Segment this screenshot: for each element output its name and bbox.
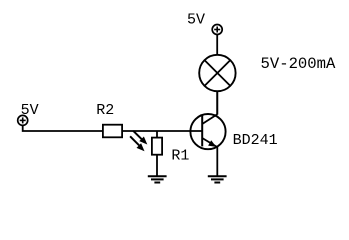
svg-text:5V: 5V: [187, 12, 205, 29]
svg-text:5V: 5V: [21, 102, 39, 119]
svg-text:5V-200mA: 5V-200mA: [261, 55, 337, 73]
svg-text:R1: R1: [171, 148, 189, 165]
svg-text:R2: R2: [96, 102, 114, 119]
svg-text:BD241: BD241: [233, 132, 278, 149]
